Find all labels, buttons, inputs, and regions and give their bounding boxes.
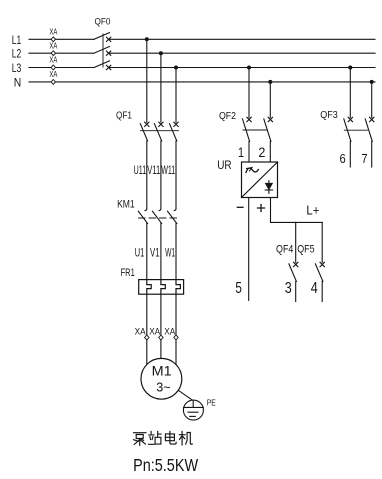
contactor KM1 pole A blade: [138, 211, 147, 223]
wire bus N: [29, 81, 375, 83]
motor M1 label: [152, 363, 172, 378]
wire L3 to QF3 pole 6: [349, 68, 351, 118]
breaker QF0 label: [95, 17, 111, 27]
caption pump station motor char 泵: [134, 433, 147, 446]
rectifier UR box: [242, 162, 278, 198]
breaker QF1 pole A blade: [140, 124, 147, 141]
svg-text:FR1: FR1: [121, 267, 135, 279]
svg-text:L3: L3: [12, 61, 22, 75]
svg-text:XA: XA: [49, 56, 57, 65]
wire bus L3 right: [109, 67, 375, 69]
svg-text:U11: U11: [134, 165, 147, 177]
ground PE label: [207, 399, 216, 408]
ground PE symbol: [183, 400, 203, 420]
breaker QF2 linkage bar: [243, 129, 267, 131]
svg-text:V11: V11: [147, 165, 160, 177]
junction dot L3 to QF3: [348, 66, 352, 70]
pin 6 label: [340, 152, 346, 166]
contactor KM1 pole B contact hook: [159, 209, 161, 211]
wire bus L2 right: [109, 52, 375, 54]
svg-text:XA: XA: [135, 327, 146, 337]
wire FR1 to XA phase B: [160, 294, 162, 335]
wire QF1 to KM1 phase A: [146, 141, 148, 209]
terminal XA motor phase A: [135, 327, 149, 340]
svg-text:3~: 3~: [156, 379, 171, 394]
wire XA to motor phase C: [175, 340, 177, 365]
breaker QF5 label: [297, 244, 314, 256]
wire phase A from L1 to QF1: [146, 39, 148, 122]
wire L3 to QF2 pole 1: [248, 68, 250, 118]
breaker QF1 pole B contact x: [159, 122, 163, 126]
svg-text:L2: L2: [12, 47, 22, 61]
wire KM1 to FR1 phase A: [146, 224, 148, 280]
svg-text:XA: XA: [149, 327, 160, 337]
breaker QF2 pole 2 blade: [264, 119, 271, 141]
breaker QF3 label: [320, 110, 338, 121]
wire QF1 to KM1 phase C: [175, 141, 177, 209]
wire UR plus elbow to L+ rail: [271, 198, 323, 223]
thermal relay FR1 label: [121, 267, 135, 279]
wire FR1 to XA phase C: [175, 294, 177, 335]
svg-text:6: 6: [340, 152, 346, 166]
breaker QF0 pole L1 blade: [94, 33, 110, 40]
node L1 label: [12, 33, 22, 47]
node N label: [14, 76, 22, 90]
svg-text:W11: W11: [161, 165, 175, 177]
svg-text:7: 7: [361, 152, 367, 166]
contactor KM1 pole C blade: [168, 211, 177, 223]
wire bus L2 left: [29, 52, 94, 54]
wire UR minus to pin 5: [248, 198, 250, 301]
pin 5 label: [235, 280, 242, 297]
junction dot L1 phase tap: [145, 37, 149, 41]
terminal XA on L1: [49, 28, 57, 42]
terminal XA motor phase C: [164, 327, 178, 340]
breaker QF1 pole C contact x: [174, 122, 178, 126]
node V1 label: [150, 246, 160, 260]
junction dot L2 phase tap: [159, 51, 163, 55]
wire bus L1 left: [29, 38, 94, 40]
breaker QF4 label: [276, 244, 293, 256]
breaker QF1 pole B blade: [154, 124, 161, 141]
breaker QF1 pole C blade: [170, 124, 177, 141]
breaker QF3 pole 6 contact x: [348, 117, 352, 121]
wire QF2 pole 2 to UR: [269, 141, 271, 162]
node L+ label: [306, 203, 319, 218]
caption pump station motor char 机: [179, 432, 192, 445]
svg-text:XA: XA: [49, 70, 57, 79]
svg-text:QF4: QF4: [276, 244, 293, 256]
breaker QF4 blade: [289, 264, 297, 282]
contactor KM1 pole B blade: [152, 211, 161, 223]
breaker QF0 pole L3 contact x: [106, 65, 110, 69]
thermal relay FR1 heater A: [147, 280, 151, 295]
svg-text:L+: L+: [306, 203, 319, 218]
breaker QF0 pole L1 contact x: [106, 37, 110, 41]
svg-text:V1: V1: [150, 246, 160, 260]
wire phase B from L2 to QF1: [160, 53, 162, 122]
wire QF3 pole 6 tail: [349, 141, 351, 167]
node V11 label: [147, 165, 160, 177]
polarity plus label: [258, 205, 265, 212]
wire QF4 to pin 3: [295, 281, 297, 301]
svg-text:W1: W1: [165, 246, 175, 260]
rectifier UR diagonal: [242, 162, 278, 198]
node U1 label: [135, 246, 145, 260]
caption pump station motor char 站: [149, 432, 162, 445]
breaker QF3 pole 6 blade: [344, 119, 351, 141]
wire bus L3 left: [29, 67, 94, 69]
breaker QF5 contact x: [320, 262, 324, 266]
polarity minus label: [237, 206, 243, 208]
node L3 label: [12, 61, 22, 75]
breaker QF2 pole 1 contact x: [247, 117, 251, 121]
svg-text:3: 3: [285, 280, 292, 297]
breaker QF1 linkage bar: [141, 130, 179, 132]
contactor KM1 label: [117, 199, 135, 211]
breaker QF0 linkage bar: [102, 34, 104, 67]
node W1 label: [165, 246, 175, 260]
wire KM1 to FR1 phase B: [160, 224, 162, 280]
wire N to QF3 pole 7: [371, 82, 373, 118]
breaker QF1 label: [116, 110, 132, 121]
svg-text:L1: L1: [12, 33, 22, 47]
wire KM1 to FR1 phase C: [175, 224, 177, 280]
thermal relay FR1 box: [139, 280, 184, 295]
breaker QF0 pole L3 blade: [94, 61, 110, 68]
rectifier UR ac squiggle: [246, 168, 258, 172]
breaker QF0 pole L2 contact x: [106, 51, 110, 55]
wire QF1 to KM1 phase B: [160, 141, 162, 209]
caption rated power Pn:5.5KW: [133, 455, 198, 475]
rectifier UR diode: [265, 181, 272, 194]
terminal XA on L3: [49, 56, 57, 70]
motor M1 circle: [141, 358, 182, 399]
junction dot N to QF2: [268, 80, 272, 84]
svg-text:XA: XA: [49, 41, 57, 50]
svg-text:Pn:5.5KW: Pn:5.5KW: [133, 455, 198, 475]
terminal XA on N: [49, 70, 57, 84]
svg-text:4: 4: [311, 280, 318, 297]
contactor KM1 pole C contact hook: [174, 209, 176, 211]
svg-text:M1: M1: [152, 363, 172, 378]
wire FR1 to XA phase A: [146, 294, 148, 335]
contactor KM1 pole A contact hook: [145, 209, 147, 211]
node U11 label: [134, 165, 147, 177]
wire XA to motor phase A: [146, 340, 148, 365]
svg-text:QF1: QF1: [116, 110, 132, 121]
wire L+ rail to QF4: [295, 222, 297, 262]
thermal relay FR1 heater B: [161, 280, 165, 295]
svg-text:U1: U1: [135, 246, 145, 260]
thermal relay FR1 heater C: [176, 280, 180, 295]
terminal XA on L2: [49, 41, 57, 55]
svg-text:1: 1: [238, 144, 244, 160]
breaker QF3 pole 7 blade: [365, 119, 372, 141]
breaker QF4 contact x: [294, 262, 298, 266]
svg-text:UR: UR: [217, 160, 231, 172]
wire L+ rail to QF5: [321, 222, 323, 262]
pin 7 label: [361, 152, 367, 166]
rectifier UR label: [217, 160, 231, 172]
node W11 label: [161, 165, 175, 177]
svg-text:XA: XA: [164, 327, 175, 337]
breaker QF2 pole 1 blade: [243, 119, 250, 141]
breaker QF3 pole 7 contact x: [370, 117, 374, 121]
wire XA to motor phase B: [160, 340, 162, 359]
svg-text:QF3: QF3: [320, 110, 338, 121]
node L2 label: [12, 47, 22, 61]
svg-text:5: 5: [235, 280, 242, 297]
svg-text:QF0: QF0: [95, 17, 111, 27]
pin 3 label: [285, 280, 292, 297]
motor 3~ label: [156, 379, 171, 394]
breaker QF5 blade: [315, 264, 323, 282]
pin 4 label: [311, 280, 318, 297]
pin 2 label: [258, 144, 265, 160]
pin 1 label: [238, 144, 244, 160]
breaker QF3 linkage bar: [344, 129, 367, 131]
wire motor to PE: [178, 390, 193, 400]
junction dot L3 to QF2: [247, 66, 251, 70]
svg-text:N: N: [14, 76, 22, 90]
svg-text:KM1: KM1: [117, 199, 135, 211]
svg-text:2: 2: [258, 144, 265, 160]
breaker QF1 pole A contact x: [145, 122, 149, 126]
caption pump station motor char 电: [165, 432, 176, 445]
wire QF5 to pin 4: [321, 281, 323, 301]
contactor KM1 linkage dashed: [139, 217, 178, 219]
wire QF3 pole 7 tail: [371, 141, 373, 167]
terminal XA motor phase B: [149, 327, 163, 340]
wire QF2 pole 1 to UR: [248, 141, 250, 162]
breaker QF2 pole 2 contact x: [268, 117, 272, 121]
svg-text:XA: XA: [49, 28, 57, 37]
svg-text:QF5: QF5: [297, 244, 314, 256]
svg-text:PE: PE: [207, 399, 216, 408]
junction dot L3 phase tap: [174, 66, 178, 70]
breaker QF2 label: [219, 111, 236, 122]
wire phase C from L3 to QF1: [175, 68, 177, 123]
wire N to QF2 pole 2: [269, 82, 271, 118]
junction dot N to QF3: [370, 80, 374, 84]
wire bus L1 right: [109, 38, 375, 40]
breaker QF0 pole L2 blade: [94, 47, 110, 54]
svg-text:QF2: QF2: [219, 111, 236, 122]
